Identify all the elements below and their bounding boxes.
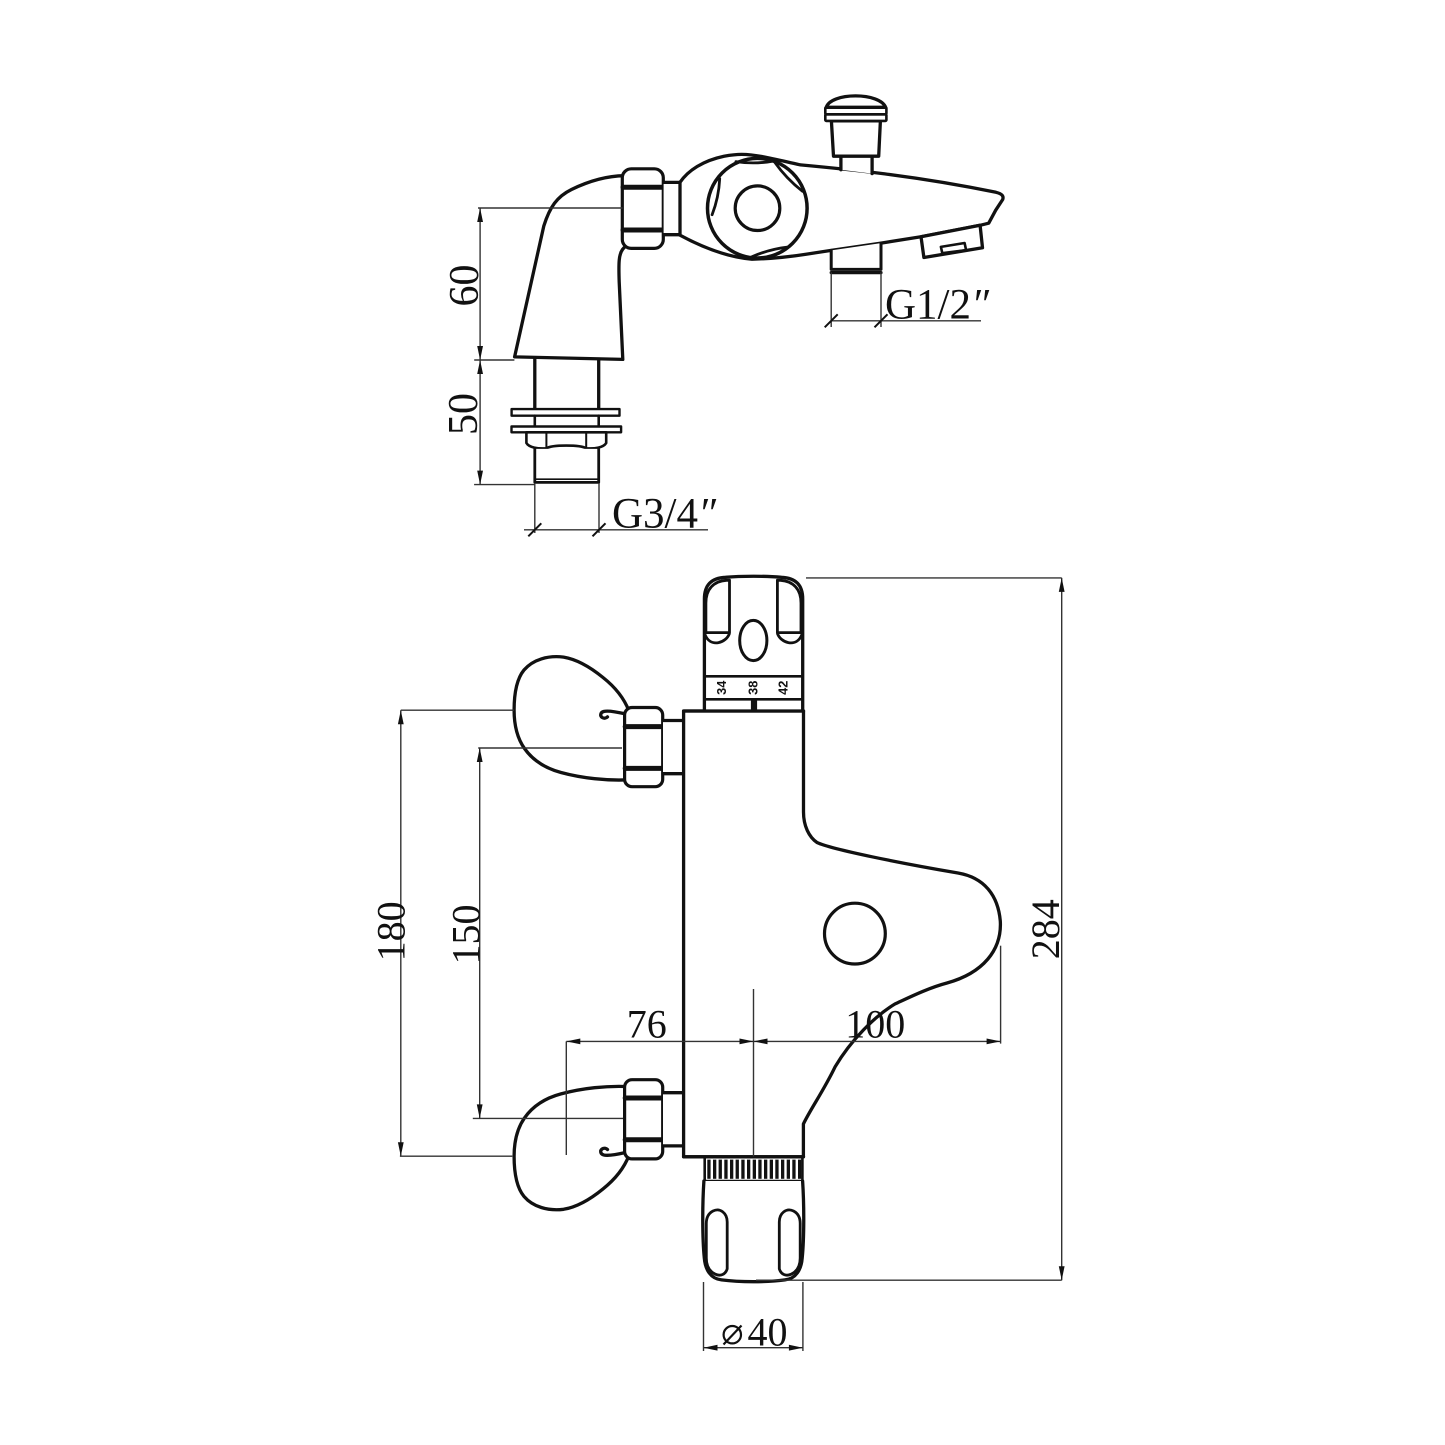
knob scallop upper-right bbox=[775, 162, 803, 191]
aerator slot bbox=[941, 243, 966, 253]
arrows dia40 bbox=[704, 1345, 718, 1351]
60 dim extension top bbox=[478, 207, 623, 209]
G1/2 dim line bbox=[831, 320, 981, 322]
diverter rings bbox=[825, 114, 886, 121]
arrows 150 bbox=[477, 748, 483, 762]
svg-text:284: 284 bbox=[1023, 899, 1068, 959]
knurled ring bbox=[705, 1157, 803, 1181]
body top edge bbox=[684, 709, 804, 712]
flow knob left slot bbox=[706, 1210, 727, 1275]
knob scallop left bbox=[712, 179, 720, 215]
284 ext bottom bbox=[756, 1279, 1062, 1281]
backnut bbox=[526, 432, 606, 448]
50 bottom extension bbox=[474, 484, 535, 486]
inlet hex nut bbox=[625, 708, 663, 787]
temperature scale numbers bbox=[714, 680, 791, 695]
svg-text:G3/4″: G3/4″ bbox=[612, 491, 717, 538]
thermostat knob right slot bbox=[777, 580, 801, 632]
flow knob outline bbox=[703, 1181, 804, 1282]
diameter symbol bbox=[724, 1326, 742, 1345]
G3/4 extension lines bbox=[534, 483, 536, 533]
76/100 dim line bbox=[566, 1040, 1000, 1042]
G1/2 outlet shank bbox=[831, 243, 881, 269]
inlet cylinder bbox=[663, 1093, 684, 1146]
inlet elbow inner curl bbox=[601, 711, 626, 718]
inlet hex nut bbox=[625, 1080, 663, 1159]
ticks G1/2 bbox=[825, 314, 838, 327]
thermostat knob outline bbox=[704, 576, 802, 710]
60/50 shared extension bbox=[474, 359, 514, 361]
body bottom edge bbox=[684, 1155, 804, 1158]
mixer body and spout bbox=[680, 154, 1003, 259]
arrows 180 bbox=[398, 710, 404, 724]
centerline bbox=[753, 989, 755, 1157]
bath filler elbow bell bbox=[515, 176, 629, 360]
shower outlet port bbox=[825, 903, 886, 964]
svg-text:76: 76 bbox=[627, 1002, 667, 1047]
150 dim line bbox=[479, 748, 481, 1118]
cold inlet assembly (bottom, mirrored) bbox=[514, 1080, 684, 1210]
washer 2 bbox=[512, 427, 622, 433]
svg-text:60: 60 bbox=[442, 265, 488, 307]
60 dim line bbox=[479, 208, 481, 360]
knob scallop top bbox=[736, 161, 773, 163]
deck shank bbox=[533, 359, 536, 409]
inlet elbow inner curl bbox=[601, 1148, 626, 1155]
thermostat knob left slot bbox=[706, 580, 730, 632]
dia40 dim line bbox=[704, 1347, 803, 1349]
284 ext top bbox=[806, 577, 1062, 579]
arrows 76/100 bbox=[566, 1039, 580, 1045]
ticks G3/4 bbox=[528, 523, 541, 536]
diverter dome cap bbox=[826, 96, 885, 107]
150 ext bottom bbox=[473, 1117, 623, 1119]
diverter stem bbox=[841, 156, 872, 173]
dia40 ext lines bbox=[703, 1282, 705, 1351]
svg-text:50: 50 bbox=[441, 393, 487, 435]
aerator housing bbox=[921, 225, 983, 257]
G3/4 dim line bbox=[524, 529, 708, 531]
svg-text:40: 40 bbox=[748, 1310, 788, 1355]
washer 1 bbox=[512, 409, 620, 416]
svg-text:38: 38 bbox=[746, 681, 761, 695]
svg-text:180: 180 bbox=[369, 901, 414, 961]
38 index mark bbox=[751, 699, 757, 710]
valve body bbox=[684, 711, 1001, 1157]
svg-text:34: 34 bbox=[714, 680, 729, 695]
diverter body (trapezoid) bbox=[831, 121, 880, 156]
50 dim line bbox=[479, 360, 481, 485]
svg-text:100: 100 bbox=[845, 1002, 905, 1047]
inlet cylinder bbox=[663, 721, 684, 774]
inlet elbow loop bbox=[514, 657, 629, 780]
180 ext bottom bbox=[400, 1155, 512, 1157]
180 ext top bbox=[401, 709, 514, 711]
inlet elbow loop bbox=[514, 1086, 629, 1209]
thermostat knob oval recess bbox=[740, 620, 767, 660]
100 right ext bbox=[1000, 946, 1002, 1044]
temperature band lines bbox=[704, 675, 802, 678]
svg-text:150: 150 bbox=[444, 905, 489, 965]
150 ext top bbox=[478, 747, 622, 749]
threaded tail bbox=[535, 449, 599, 483]
hex nut (elbow to body) bbox=[622, 169, 663, 249]
knob inner circle bbox=[735, 186, 780, 231]
hot inlet assembly (top) bbox=[514, 657, 684, 787]
svg-text:G1/2″: G1/2″ bbox=[885, 282, 990, 329]
svg-text:42: 42 bbox=[775, 681, 790, 695]
knob scallop bottom bbox=[750, 247, 787, 257]
76 inlet center ext bbox=[565, 1041, 567, 1155]
knurl bars bbox=[707, 1160, 801, 1179]
flow knob right slot bbox=[779, 1210, 800, 1275]
arrows 60 bbox=[477, 208, 483, 222]
cylinder bbox=[664, 182, 682, 234]
G1/2 extension lines bbox=[830, 272, 832, 327]
arrows 284 bbox=[1059, 578, 1065, 592]
control knob outer bbox=[708, 158, 808, 258]
180 dim line bbox=[400, 710, 402, 1156]
284 dim line bbox=[1061, 578, 1063, 1280]
